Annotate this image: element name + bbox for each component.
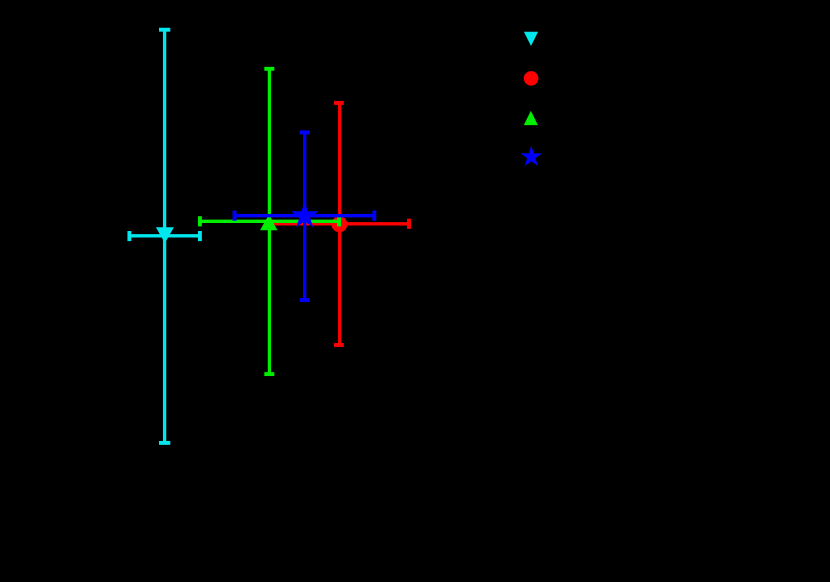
legend entry 2: red circle marker: [524, 71, 539, 86]
blue bottom cap: [300, 298, 310, 302]
green left cap: [198, 216, 202, 226]
green errorbar series: point 3: [200, 69, 339, 374]
legend entry 4: blue star marker: [521, 146, 542, 166]
cyan top cap: [159, 28, 170, 32]
green right cap: [337, 216, 341, 226]
red right cap: [407, 219, 411, 229]
blue errorbar series: point 4: [235, 132, 375, 300]
red errorbar series: point 2: [270, 103, 409, 345]
cyan horizontal error line: [129, 234, 200, 237]
red circle marker: [331, 216, 347, 232]
cyan errorbar series: point 1: [129, 30, 200, 443]
cyan triangle-down marker: [156, 227, 174, 243]
green vertical error line: [268, 69, 271, 374]
red left cap: [268, 219, 272, 229]
blue vertical error line: [303, 132, 306, 300]
blue horizontal error line: [235, 214, 375, 217]
cyan bottom cap: [159, 441, 170, 445]
green bottom cap: [264, 372, 274, 376]
green triangle-up marker: [260, 215, 278, 231]
red horizontal error line: [270, 222, 409, 225]
legend entry 3: green triangle-up marker: [524, 111, 538, 125]
legend entry 1: cyan triangle-down marker: [524, 32, 538, 46]
blue left cap: [233, 211, 237, 221]
blue star marker: [291, 201, 319, 227]
cyan left cap: [127, 231, 131, 241]
blue right cap: [372, 211, 376, 221]
blue top cap: [300, 130, 310, 134]
cyan vertical error line: [163, 30, 166, 443]
red top cap: [334, 101, 344, 105]
cyan right cap: [198, 231, 202, 241]
red bottom cap: [334, 343, 344, 347]
red vertical error line: [338, 103, 341, 345]
green top cap: [264, 67, 274, 71]
green horizontal error line: [200, 220, 339, 223]
